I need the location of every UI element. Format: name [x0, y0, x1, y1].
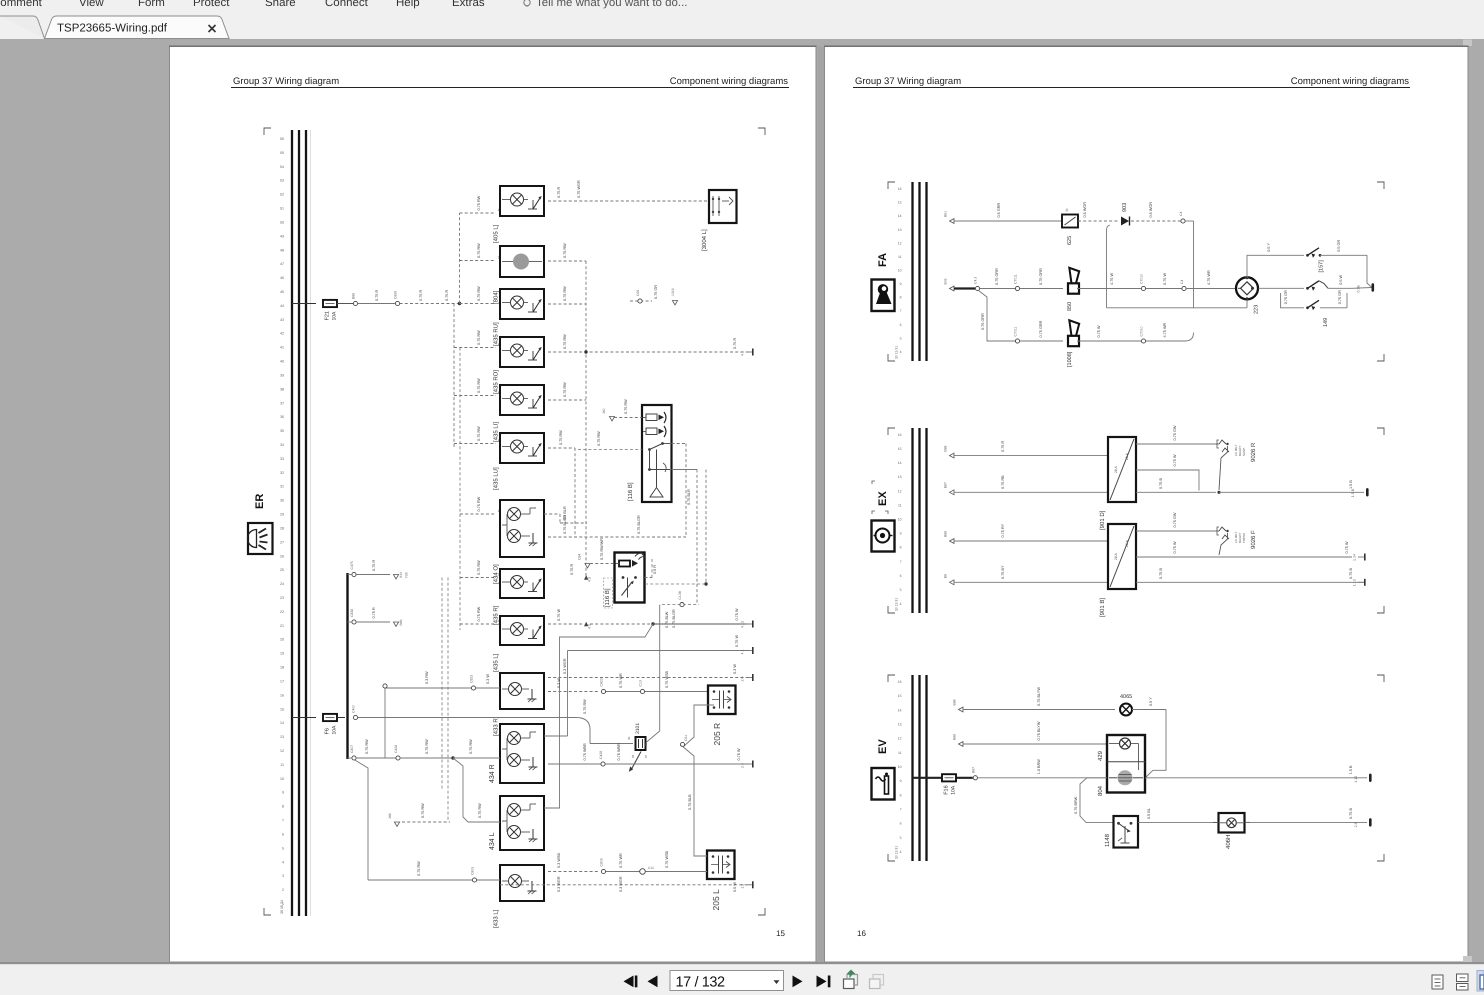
- svg-text:8: 8: [900, 296, 902, 300]
- svg-text:7: 7: [900, 808, 902, 812]
- svg-text:2: 2: [282, 888, 284, 892]
- svg-text:0.75 RW: 0.75 RW: [597, 431, 601, 446]
- svg-text:[435 LI]: [435 LI]: [493, 422, 500, 442]
- svg-text:6: 6: [282, 833, 284, 837]
- svg-text:24: 24: [280, 582, 284, 586]
- svg-text:15: 15: [280, 707, 284, 711]
- svg-text:31: 31: [280, 485, 284, 489]
- svg-text:0.75 BLW: 0.75 BLW: [665, 611, 669, 628]
- bottom toolbar: [0, 964, 1484, 995]
- svg-text:149: 149: [1323, 318, 1329, 327]
- svg-text:[157]: [157]: [1319, 260, 1325, 273]
- svg-text:0.75 RW: 0.75 RW: [477, 195, 481, 210]
- fuse F6 10A row: [292, 705, 358, 735]
- left page: [170, 47, 817, 963]
- 434O right nets: [544, 506, 686, 537]
- svg-text:18: 18: [280, 666, 284, 670]
- relay 116 B upper: [627, 405, 672, 502]
- svg-text:C4: C4: [1180, 280, 1184, 284]
- branch row 2 w/ ground 838: [348, 607, 404, 626]
- svg-text:32: 32: [1065, 208, 1069, 212]
- svg-text:15: 15: [898, 694, 902, 698]
- svg-text:19: 19: [280, 652, 284, 656]
- dashed net 804/435 risers x=586: [585, 261, 587, 578]
- scrollbar remnant bottom: [1463, 956, 1472, 962]
- branch bar from bus: [346, 573, 348, 759]
- long row 434R to edge 2.4: [548, 743, 754, 768]
- single page layout icon: [1432, 975, 1443, 989]
- switch 157: [1247, 240, 1372, 288]
- FA bus bars: [895, 182, 927, 361]
- svg-text:0.75 RW: 0.75 RW: [624, 399, 628, 414]
- lamp 406: [1213, 813, 1250, 849]
- ER headlight icon: [248, 523, 273, 554]
- svg-text:0.5 W: 0.5 W: [733, 882, 737, 892]
- 901B right nets: [1136, 512, 1364, 582]
- svg-text:39: 39: [280, 374, 284, 378]
- svg-text:5: 5: [900, 336, 902, 340]
- lamp 435 RU: [493, 289, 545, 346]
- svg-text:22 A: 22 A: [1125, 539, 1129, 547]
- FA row3 horn 1008: [1014, 320, 1194, 367]
- riser to 434L: [453, 758, 500, 822]
- feed stub 435LI: [454, 378, 500, 396]
- svg-text:4.75 W: 4.75 W: [1110, 273, 1114, 285]
- connector 205 L: [707, 851, 735, 911]
- svg-text:47: 47: [280, 262, 284, 266]
- svg-text:C839: C839: [394, 291, 398, 299]
- svg-text:50: 50: [280, 221, 284, 225]
- svg-text:0.75 R: 0.75 R: [445, 290, 449, 301]
- lighter unit 429/804: [1097, 735, 1145, 796]
- svg-text:44: 44: [280, 304, 284, 308]
- svg-text:C12: C12: [648, 866, 654, 870]
- svg-text:B61: B61: [944, 211, 948, 217]
- feed stub 435RO: [454, 330, 500, 348]
- svg-text:J40: J40: [602, 408, 606, 414]
- svg-text:0.75 RW: 0.75 RW: [417, 861, 421, 876]
- feed stub 435L: [460, 606, 500, 624]
- svg-text:16: 16: [280, 693, 284, 697]
- wire 1148 to lamp 406: [1138, 808, 1218, 822]
- svg-text:C7011: C7011: [1014, 274, 1018, 284]
- FA ground: [1372, 283, 1375, 291]
- svg-text:0.75 W: 0.75 W: [1173, 541, 1177, 553]
- svg-text:Group 37 Wiring diagram: Group 37 Wiring diagram: [233, 76, 339, 87]
- page bottom shadow: [0, 962, 1484, 964]
- connector C10B stub: [662, 590, 699, 628]
- relay 116 B lower: [604, 553, 646, 609]
- svg-text:0.3 WSB: 0.3 WSB: [557, 853, 561, 868]
- svg-text:1.5 B: 1.5 B: [1349, 765, 1353, 774]
- svg-text:Extras: Extras: [452, 0, 485, 9]
- svg-text:10: 10: [898, 269, 902, 273]
- tab bar: [0, 15, 1484, 40]
- svg-text:0.75 WSB: 0.75 WSB: [665, 670, 669, 688]
- svg-text:Comment: Comment: [0, 0, 43, 9]
- svg-text:804: 804: [1097, 785, 1104, 796]
- svg-text:0.3 WGR: 0.3 WGR: [563, 658, 567, 674]
- svg-text:[435 L]: [435 L]: [493, 653, 500, 672]
- svg-text:0.75 RW: 0.75 RW: [477, 560, 481, 575]
- svg-text:2.6: 2.6: [741, 677, 745, 682]
- svg-text:15: 15: [776, 929, 785, 938]
- svg-text:28 A: 28 A: [1114, 552, 1118, 560]
- svg-text:14: 14: [898, 214, 902, 218]
- last page button: [817, 976, 831, 988]
- svg-text:0.75 RW: 0.75 RW: [469, 739, 473, 754]
- svg-text:[3004 L]: [3004 L]: [701, 229, 708, 251]
- svg-text:4.1: 4.1: [588, 624, 592, 629]
- svg-text:0.75 R: 0.75 R: [375, 290, 379, 301]
- gnd stub to 434L row: [388, 803, 450, 827]
- svg-text:0.3 W: 0.3 W: [557, 678, 561, 688]
- feed stub 435RU: [460, 286, 497, 304]
- svg-text:6: 6: [900, 822, 902, 826]
- svg-text:[901 B]: [901 B]: [1099, 598, 1106, 617]
- svg-text:C84: C84: [578, 554, 582, 560]
- svg-text:B88: B88: [944, 445, 948, 451]
- svg-text:1.5 B: 1.5 B: [1351, 488, 1355, 497]
- svg-text:Component wiring diagrams: Component wiring diagrams: [1291, 76, 1410, 87]
- lamp 433 L: [493, 865, 545, 928]
- svg-text:0.75 BLYW: 0.75 BLYW: [1037, 721, 1041, 740]
- unit 3004 L: [701, 190, 737, 251]
- svg-text:R13: R13: [399, 572, 403, 578]
- svg-text:0.75 WR: 0.75 WR: [619, 853, 623, 868]
- dashed riser down: [453, 304, 455, 449]
- svg-text:37: 37: [280, 401, 284, 405]
- flasher 3101: [635, 723, 646, 750]
- wire 433R feed: [385, 671, 500, 690]
- svg-text:434 R: 434 R: [489, 764, 496, 783]
- svg-text:17: 17: [280, 680, 284, 684]
- svg-text:C61: C61: [684, 735, 688, 741]
- svg-text:21: 21: [280, 624, 284, 628]
- lamp 433 R: [493, 673, 545, 736]
- svg-text:14: 14: [280, 721, 284, 725]
- svg-text:36: 36: [280, 415, 284, 419]
- svg-text:Help: Help: [396, 0, 420, 9]
- svg-text:48: 48: [280, 248, 284, 252]
- svg-text:C7011: C7011: [1014, 327, 1018, 337]
- svg-text:22: 22: [280, 610, 284, 614]
- lightbulb icon + tell-me field: [524, 0, 688, 9]
- right page: [825, 47, 1469, 963]
- svg-text:10: 10: [280, 777, 284, 781]
- first page button: [624, 976, 638, 988]
- svg-text:0.3 WGR: 0.3 WGR: [557, 876, 561, 892]
- lamp 435 R: [493, 569, 545, 625]
- svg-text:38: 38: [280, 387, 284, 391]
- svg-text:4.1: 4.1: [741, 650, 745, 655]
- svg-text:85: 85: [644, 742, 648, 746]
- svg-text:9: 9: [900, 532, 902, 536]
- svg-text:7: 7: [900, 309, 902, 313]
- svg-text:12: 12: [280, 749, 284, 753]
- wire 405L to 3004L dashed: [548, 180, 707, 201]
- svg-text:8: 8: [900, 546, 902, 550]
- svg-text:Group 37 Wiring diagram: Group 37 Wiring diagram: [855, 76, 961, 87]
- svg-text:[434 O]: [434 O]: [493, 564, 500, 584]
- wire 433R row right dashed: [548, 670, 707, 693]
- svg-text:15: 15: [898, 201, 902, 205]
- svg-text:Tell me what you want to do...: Tell me what you want to do...: [536, 0, 688, 9]
- svg-text:0.3 RW: 0.3 RW: [425, 671, 429, 684]
- svg-text:16: 16: [898, 433, 902, 437]
- svg-text:0.75 BLGR: 0.75 BLGR: [672, 609, 676, 628]
- svg-text:17 / 132: 17 / 132: [676, 975, 726, 991]
- svg-text:C805: C805: [471, 867, 475, 875]
- svg-text:0.3 W: 0.3 W: [486, 674, 490, 684]
- lamp 434 L: [489, 796, 544, 850]
- svg-text:4.13: 4.13: [741, 621, 745, 628]
- wire gnd J to 116B lower: [578, 538, 615, 568]
- svg-text:4.3: 4.3: [588, 577, 592, 582]
- svg-text:0.75 RW: 0.75 RW: [477, 606, 481, 621]
- svg-text:6: 6: [900, 574, 902, 578]
- EV main row to ground: [1145, 765, 1372, 783]
- EV bus bars: [895, 675, 927, 861]
- svg-text:43: 43: [280, 318, 284, 322]
- svg-text:40: 40: [280, 360, 284, 364]
- svg-text:0.5 BL: 0.5 BL: [1147, 808, 1151, 819]
- svg-text:0.75 WBR: 0.75 WBR: [583, 743, 587, 761]
- EX row1: [944, 445, 955, 458]
- svg-text:25: 25: [280, 568, 284, 572]
- svg-text:16: 16: [898, 187, 902, 191]
- svg-text:30 15 31: 30 15 31: [280, 900, 284, 914]
- previous view icon: [844, 970, 858, 989]
- svg-text:87: 87: [644, 754, 648, 758]
- svg-text:15: 15: [898, 447, 902, 451]
- svg-text:0.75 W: 0.75 W: [735, 608, 739, 620]
- page top shadow line: [169, 46, 817, 47]
- svg-text:0.75 BRW: 0.75 BRW: [1074, 796, 1078, 814]
- svg-text:5: 5: [900, 836, 902, 840]
- svg-text:0.5 WGR: 0.5 WGR: [1149, 202, 1153, 218]
- svg-text:0.5 R: 0.5 R: [653, 565, 657, 574]
- svg-text:6: 6: [900, 323, 902, 327]
- sensor 901 D: [1099, 437, 1136, 530]
- svg-text:27: 27: [280, 540, 284, 544]
- feed stub 804: [460, 243, 500, 261]
- wire 205R to 205L link: [680, 705, 714, 856]
- svg-text:850: 850: [1067, 302, 1073, 311]
- connector 205 R: [708, 686, 736, 746]
- svg-text:0.75 GR: 0.75 GR: [1338, 290, 1342, 304]
- svg-text:29: 29: [280, 513, 284, 517]
- svg-text:B87: B87: [944, 482, 948, 488]
- EX row4: [944, 574, 955, 585]
- svg-text:32: 32: [280, 471, 284, 475]
- svg-text:0.75 GW: 0.75 GW: [1173, 512, 1177, 527]
- wire bus to F21: [292, 303, 316, 305]
- svg-text:0.75 RW: 0.75 RW: [563, 334, 567, 349]
- switch 1148: [1104, 816, 1138, 848]
- svg-text:0.5 WGR: 0.5 WGR: [1083, 202, 1087, 218]
- svg-text:Form: Form: [138, 0, 165, 9]
- svg-text:33: 33: [280, 457, 284, 461]
- lamp 435 LU: [493, 433, 545, 490]
- EV row3 ground: [1250, 808, 1372, 828]
- next page button: [793, 976, 803, 988]
- wire 804 right: [548, 243, 586, 261]
- svg-text:0.75 WGR: 0.75 WGR: [577, 180, 581, 198]
- svg-text:[433 R]: [433 R]: [493, 716, 500, 736]
- wire 116B lower to riser: [645, 559, 658, 578]
- svg-text:0.75 W: 0.75 W: [1173, 454, 1177, 466]
- svg-text:C7010: C7010: [1140, 274, 1144, 284]
- svg-text:14: 14: [898, 461, 902, 465]
- svg-text:[116 B]: [116 B]: [627, 482, 634, 501]
- svg-text:52: 52: [280, 193, 284, 197]
- svg-text:4.1: 4.1: [741, 351, 745, 356]
- lamp 804 glow: [493, 246, 545, 304]
- svg-text:20: 20: [280, 638, 284, 642]
- svg-text:0.75 RW: 0.75 RW: [425, 739, 429, 754]
- svg-text:10A: 10A: [332, 311, 338, 321]
- svg-text:13: 13: [280, 735, 284, 739]
- svg-text:0.75 R: 0.75 R: [570, 564, 574, 575]
- svg-text:TSP23665-Wiring.pdf: TSP23665-Wiring.pdf: [57, 23, 168, 35]
- svg-text:[116 B]: [116 B]: [604, 588, 611, 607]
- svg-text:0.75 B: 0.75 B: [1159, 568, 1163, 579]
- svg-text:FA: FA: [877, 253, 889, 267]
- dashed link 116B to riser: [645, 583, 706, 585]
- svg-text:B88: B88: [953, 734, 957, 740]
- svg-text:1.0 BRW: 1.0 BRW: [1037, 759, 1041, 775]
- svg-text:429: 429: [1097, 750, 1104, 761]
- svg-text:EX: EX: [877, 491, 889, 506]
- svg-text:0.75 W: 0.75 W: [1097, 325, 1101, 337]
- EX ground bar row2: [1366, 488, 1369, 496]
- svg-text:0.5 Y: 0.5 Y: [1149, 697, 1153, 706]
- svg-text:C10B: C10B: [678, 590, 682, 599]
- svg-text:41: 41: [280, 346, 284, 350]
- fuse F21 10A: [323, 300, 338, 321]
- svg-text:12: 12: [898, 737, 902, 741]
- svg-text:46: 46: [280, 276, 284, 280]
- svg-text:10A: 10A: [332, 725, 338, 735]
- svg-text:[435 RO]: [435 RO]: [493, 370, 500, 394]
- svg-text:[1008]: [1008]: [1067, 351, 1073, 367]
- svg-text:J48: J48: [388, 813, 392, 819]
- svg-text:0.75 WR: 0.75 WR: [619, 673, 623, 688]
- EV lighter icon: [872, 768, 895, 800]
- wire to 433L: [354, 760, 500, 883]
- svg-text:SUSP.: SUSP.: [1242, 447, 1246, 456]
- svg-text:0.75 BLB: 0.75 BLB: [688, 794, 692, 810]
- svg-text:C7010: C7010: [1140, 326, 1144, 336]
- svg-text:42: 42: [280, 332, 284, 336]
- wire 3101 riser: [646, 605, 660, 743]
- svg-text:0.75 GRR: 0.75 GRR: [1039, 268, 1043, 285]
- FA horn icon: [872, 280, 895, 312]
- svg-text:B8: B8: [944, 574, 948, 578]
- svg-text:11: 11: [898, 751, 902, 755]
- svg-text:22 A: 22 A: [1125, 452, 1129, 460]
- feed stub 405L: [460, 195, 500, 213]
- svg-text:12: 12: [898, 489, 902, 493]
- dashed wire into 116B pin 2: [578, 431, 642, 450]
- svg-text:[901 D]: [901 D]: [1099, 510, 1106, 530]
- svg-text:4: 4: [282, 860, 284, 864]
- dashed riser lower cluster: [442, 348, 460, 823]
- svg-text:8: 8: [900, 793, 902, 797]
- wire 804 to 1148: [1074, 778, 1113, 823]
- svg-text:1319: 1319: [671, 288, 675, 296]
- stub connector C6 at 640,301: [630, 285, 678, 305]
- lamp 435 L: [493, 616, 545, 672]
- svg-text:54: 54: [280, 165, 284, 169]
- svg-text:3101: 3101: [635, 723, 641, 734]
- svg-text:Share: Share: [265, 0, 296, 9]
- bus bars 30/15/31 left page: [292, 130, 311, 916]
- facing layout icon selected: [1477, 971, 1484, 992]
- svg-text:B88: B88: [352, 293, 356, 299]
- svg-text:903: 903: [1122, 203, 1128, 212]
- feed stub 434O: [460, 496, 500, 514]
- branch row 1 w/ ground 475: [348, 560, 409, 579]
- svg-text:0.75 GR: 0.75 GR: [1284, 290, 1288, 304]
- svg-text:23: 23: [280, 596, 284, 600]
- svg-text:0.75 BLR: 0.75 BLR: [687, 489, 691, 505]
- svg-text:7: 7: [282, 819, 284, 823]
- svg-text:C66: C66: [636, 290, 640, 296]
- svg-text:Protect: Protect: [193, 0, 230, 9]
- svg-text:0.75 B: 0.75 B: [1349, 808, 1353, 819]
- svg-text:4: 4: [900, 850, 902, 854]
- riser 433R net: [383, 684, 387, 758]
- svg-text:9: 9: [282, 791, 284, 795]
- svg-text:28 A: 28 A: [1114, 465, 1118, 473]
- svg-text:0.75 RW/WR: 0.75 RW/WR: [600, 538, 604, 560]
- svg-text:[435 R]: [435 R]: [493, 605, 500, 625]
- svg-text:0.5 GR: 0.5 GR: [1337, 240, 1341, 252]
- svg-text:53: 53: [280, 179, 284, 183]
- EX label brackets: [872, 481, 888, 514]
- svg-text:0.3 W: 0.3 W: [733, 664, 737, 674]
- svg-text:C838: C838: [350, 609, 354, 617]
- svg-text:434 L: 434 L: [489, 832, 496, 850]
- svg-text:0.5 W: 0.5 W: [1339, 274, 1343, 284]
- svg-text:4: 4: [900, 602, 902, 606]
- svg-text:0.75 GRR: 0.75 GRR: [1039, 320, 1043, 337]
- EX terminal 1.13: [1358, 581, 1364, 583]
- svg-text:C807: C807: [350, 745, 354, 753]
- svg-text:4065: 4065: [1120, 694, 1132, 700]
- inter-page gap: [818, 47, 825, 963]
- EX row2: [944, 482, 955, 495]
- svg-text:12: 12: [898, 241, 902, 245]
- svg-text:0.75 RW: 0.75 RW: [421, 803, 425, 818]
- svg-text:10: 10: [898, 765, 902, 769]
- FA corner marks: [888, 182, 1384, 361]
- svg-text:0.3 WGR: 0.3 WGR: [619, 876, 623, 892]
- wire drop to 434L: [544, 624, 653, 808]
- next view icon (disabled): [870, 975, 884, 989]
- wire 435LU right: [548, 430, 575, 537]
- svg-text:F16: F16: [944, 785, 950, 794]
- sensor 901 B: [1099, 524, 1136, 617]
- switch 149 contact mid: [1259, 274, 1372, 290]
- svg-text:1.13: 1.13: [1353, 579, 1357, 586]
- svg-text:B88: B88: [953, 699, 957, 705]
- svg-text:C400: C400: [352, 705, 356, 713]
- svg-text:10: 10: [898, 518, 902, 522]
- svg-text:5: 5: [282, 846, 284, 850]
